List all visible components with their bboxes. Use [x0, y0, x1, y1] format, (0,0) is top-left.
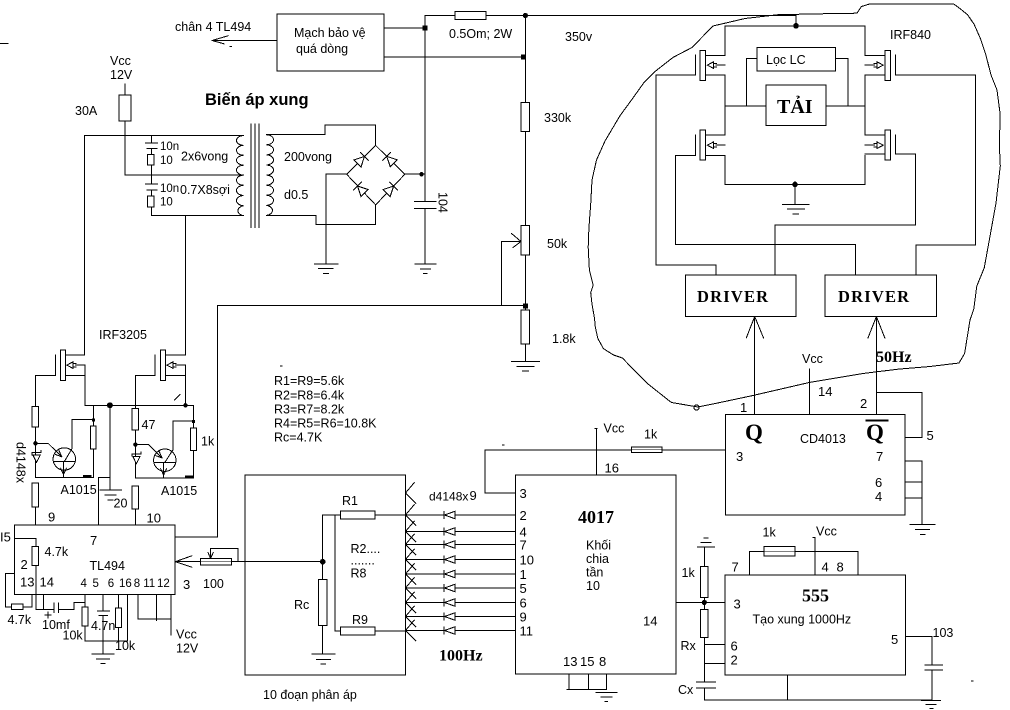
junction tick wiper node: [523, 304, 528, 309]
wire primary top rail y=135.5: [85, 135, 244, 137]
svg-text:chân 4 TL494: chân 4 TL494: [175, 20, 251, 34]
svg-text:1: 1: [520, 567, 527, 582]
wire 100Hz row to pin3: [485, 450, 726, 493]
svg-text:Mạch bảo vệ: Mạch bảo vệ: [294, 26, 366, 40]
svg-text:7: 7: [876, 449, 883, 464]
chevron tap row pin9: [406, 606, 417, 627]
svg-text:Cx: Cx: [678, 683, 694, 697]
junction dot bottom rail: [792, 182, 798, 188]
resistor 47 left: [32, 406, 38, 427]
wire base Q7: [35, 443, 61, 457]
svg-text:4.7k: 4.7k: [45, 545, 69, 559]
IC U3 4017 box: [516, 475, 677, 674]
box TAI (load): [766, 85, 826, 126]
wire protection box lower to node 525: [384, 56, 525, 58]
svg-text:CD4013: CD4013: [800, 432, 846, 446]
svg-text:10n: 10n: [160, 183, 179, 195]
diode d4148 row pin10: [444, 556, 455, 563]
svg-text:100: 100: [203, 577, 224, 591]
wire 555 pin2 stub: [704, 662, 725, 664]
wire primary bottom rail to right MOSFET drain: [151, 216, 243, 356]
wire row pin10 left: [406, 559, 444, 561]
cloud end small loop: [694, 405, 699, 410]
potentiometer 50k body: [521, 225, 530, 255]
svg-text:8: 8: [134, 578, 140, 590]
cloud outline around H-bridge: [588, 4, 1000, 407]
wire bridge right vertex to cap node: [405, 173, 425, 175]
svg-text:0.7X8sợi: 0.7X8sợi: [180, 183, 230, 197]
capacitor 10n (snubber 1): [146, 136, 158, 155]
svg-text:A1015: A1015: [161, 484, 197, 498]
capacitor Cx: [697, 682, 716, 700]
svg-text:Vcc: Vcc: [816, 525, 837, 539]
wire row pin4 left: [406, 531, 444, 533]
wire 555 bottom rail: [704, 699, 932, 701]
resistor 330k: [521, 102, 530, 131]
svg-text:3: 3: [183, 577, 190, 592]
svg-text:11: 11: [520, 623, 534, 638]
wire row pin1 left: [406, 573, 444, 575]
resistor 10k (pin6): [115, 595, 121, 641]
svg-text:50Hz: 50Hz: [876, 349, 912, 366]
wire left column to pin9: [34, 507, 36, 525]
wire pin3 with arrowhead: [175, 556, 245, 567]
svg-text:13: 13: [563, 654, 577, 669]
svg-text:quá dòng: quá dòng: [296, 42, 348, 56]
transistor Q1 IRF3205 left: [55, 350, 85, 380]
diode d4148 left (zener style): [32, 451, 41, 463]
svg-text:16: 16: [605, 461, 619, 476]
svg-text:4.7n: 4.7n: [91, 619, 115, 633]
capacitor 4.7n: [97, 595, 109, 641]
svg-text:14: 14: [818, 384, 832, 399]
resistor 1k left (collector): [90, 405, 96, 477]
junction square at (425,28): [423, 26, 428, 31]
svg-text:R1: R1: [342, 494, 358, 508]
wire row pin5 right: [455, 587, 516, 589]
wire right column mid: [134, 430, 136, 478]
wire H-bridge left rail segments: [724, 26, 726, 185]
resistor 0.5Om 2W: [455, 12, 486, 20]
ground inverted (1k to Vcc rail): [698, 538, 715, 547]
svg-text:2: 2: [860, 396, 867, 411]
wire row pin11 right: [455, 630, 516, 632]
diode D1 (left to top): [354, 153, 369, 168]
svg-text:12V: 12V: [176, 642, 199, 656]
transistor Q7 A1015 left: [53, 448, 75, 470]
chevron tap row pin3: [406, 483, 417, 504]
transistor Q6 IRF840 bottom-right: [865, 130, 895, 160]
svg-text:6: 6: [520, 595, 527, 610]
diode d4148 row pin4: [444, 528, 455, 535]
capacitor 104: [415, 174, 437, 263]
svg-text:15: 15: [580, 654, 594, 669]
wire left column mid: [34, 427, 36, 477]
svg-text:chia: chia: [586, 552, 609, 566]
wire base Q8: [135, 445, 162, 458]
svg-text:d4148x: d4148x: [429, 490, 468, 504]
svg-text:1k: 1k: [763, 526, 777, 540]
wire 4017 bottom pins tie: [567, 674, 606, 689]
chevron tap row pin11: [406, 620, 417, 641]
svg-text:Vcc: Vcc: [604, 422, 625, 436]
wire row pin2 left: [406, 514, 444, 516]
chevron tap row pin1: [406, 564, 417, 585]
svg-text:47: 47: [142, 418, 156, 432]
svg-text:10: 10: [160, 197, 173, 209]
svg-text:2: 2: [731, 653, 738, 668]
svg-text:3: 3: [734, 597, 741, 612]
wire R9 leads: [335, 630, 406, 632]
diode d4148 row pin5: [444, 584, 455, 591]
wire pins 7 6 4 tie: [905, 461, 922, 524]
stray dot under arrow: [230, 46, 232, 48]
svg-text:Rc=4.7K: Rc=4.7K: [274, 431, 323, 445]
wire Vcc to CD4013 pin14: [809, 369, 811, 415]
junction dot left base node: [33, 441, 37, 445]
svg-text:1.8k: 1.8k: [552, 332, 576, 346]
svg-text:R9: R9: [352, 613, 368, 627]
wire TL494 pin7 L: [98, 478, 110, 525]
resistor 47 right: [132, 409, 138, 430]
capacitor 10n (snubber 2): [146, 175, 158, 196]
wire pin5 feedback loop to pin2 line: [876, 393, 922, 438]
stray dot near d4148x label: [503, 444, 505, 446]
transistor Q4 IRF840 top-right: [865, 50, 895, 80]
wire bridge bottom vertex down: [375, 205, 377, 225]
svg-text:R3=R7=8.2k: R3=R7=8.2k: [274, 403, 345, 417]
svg-text:1k: 1k: [201, 435, 215, 449]
wire 4017 pin14 to 555 pin3: [676, 601, 725, 603]
wire wiper down to feedback node: [501, 242, 525, 306]
arrowhead base Q8: [156, 451, 162, 458]
wire pin2 loop to 4.7k: [5, 573, 14, 607]
resistor Rc: [319, 562, 327, 654]
ground under cap 104: [415, 264, 436, 274]
potentiometer 100: [200, 559, 231, 565]
arrowhead base Q7: [56, 450, 62, 457]
wire H-bridge right rail segments: [864, 26, 866, 185]
svg-text:5: 5: [927, 428, 934, 443]
svg-text:11: 11: [143, 578, 155, 590]
wire row pin2 right: [455, 514, 516, 516]
wire row pin9 left: [406, 616, 444, 618]
wire 350v divider column x=525.4: [524, 16, 526, 362]
box DRIVER1: [686, 275, 797, 317]
emitter Q7: [61, 461, 67, 477]
resistor right lower (to TL494 pin10): [132, 486, 138, 509]
wire Vcc to 555 pin4: [813, 538, 815, 576]
svg-text:d0.5: d0.5: [284, 188, 308, 202]
wire 555 pin6 stub: [704, 643, 725, 645]
svg-text:I5: I5: [0, 530, 11, 545]
fuse F1 30A: [119, 95, 131, 121]
svg-text:9: 9: [520, 609, 527, 624]
wire arrow to TL494 pin4: [213, 40, 277, 42]
wire 555 pin5 stub: [905, 635, 932, 637]
IC U4 555 box: [725, 575, 905, 675]
svg-text:4017: 4017: [578, 507, 614, 527]
wiper 100: [208, 548, 238, 561]
junction blob right: [186, 476, 192, 478]
box 10-segment divider: [245, 475, 406, 675]
ground under 1.8k: [512, 362, 540, 372]
diode D3 (bottom to left): [354, 182, 368, 196]
wire Loc LC right leg: [836, 59, 848, 106]
svg-text:555: 555: [802, 586, 829, 606]
text block R values: [274, 374, 377, 445]
box Mach bao ve qua dong (overcurrent protection): [277, 14, 384, 71]
IC U1 TL494 box: [15, 525, 176, 595]
svg-text:DRIVER: DRIVER: [838, 287, 910, 306]
wire left gate column upper: [34, 375, 36, 406]
wire center-tap: fuse node down and right: [125, 136, 242, 176]
wire CD4013 Qbar to DRIVER2 with arrow: [868, 317, 885, 415]
wire R1 to wiper node: [322, 515, 324, 562]
wire protection box to node 425: [384, 27, 425, 29]
wire source rail y=405.3: [85, 404, 194, 406]
transistor Q8 A1015 right: [154, 449, 176, 471]
junction dot pin14 wire: [702, 600, 707, 605]
junction dot source rail right: [183, 403, 187, 407]
resistor 1k (CD4013 pin3): [632, 447, 662, 453]
diode d4148 row pin6: [444, 599, 455, 606]
wire row pin4 right: [455, 531, 516, 533]
wire secondary bottom jog: [266, 215, 375, 224]
svg-text:50k: 50k: [547, 237, 568, 251]
wire AC2 ground drop: [325, 225, 327, 264]
ground TL494: [92, 641, 114, 664]
junction blob: [84, 475, 91, 477]
wire R1 leads: [323, 514, 406, 516]
svg-text:Biến áp xung: Biến áp xung: [205, 91, 309, 109]
svg-text:Q: Q: [745, 420, 763, 445]
collector Q7: [65, 420, 94, 462]
wire ground column x=110: [109, 405, 111, 490]
chevron tap row pin2: [406, 505, 417, 526]
wire left MOSFET drain column x=84.6: [84, 136, 86, 356]
diode d4148 right (zener style): [132, 452, 141, 464]
svg-text:350v: 350v: [565, 30, 593, 44]
overbar of Qbar: [867, 420, 888, 422]
wire row pin11 left: [406, 630, 444, 632]
svg-text:6: 6: [875, 475, 882, 490]
wire row pin7 right: [455, 544, 516, 546]
wire 555 pin7 top loop: [749, 552, 858, 576]
diode d4148 row pin7: [444, 541, 455, 548]
IC U2 CD4013 box: [726, 415, 906, 516]
svg-text:9: 9: [48, 510, 55, 525]
resistor 1k (555 top): [764, 547, 795, 556]
svg-text:7: 7: [520, 537, 527, 552]
svg-text:12V: 12V: [110, 68, 133, 82]
svg-text:Q: Q: [866, 420, 884, 445]
resistor 4.7k (pin15): [32, 546, 38, 565]
junction dot wiper node: [320, 559, 326, 565]
resistor 10k (pin4): [82, 595, 88, 641]
svg-text:13: 13: [20, 575, 34, 590]
transformer T1 secondary winding: [266, 135, 273, 216]
wire TAI left: [725, 105, 766, 107]
wire bridge left vertex to AC2 node: [326, 174, 347, 224]
svg-text:4.7k: 4.7k: [8, 613, 32, 627]
svg-text:1: 1: [740, 400, 747, 415]
wire emitter rail left: [35, 476, 92, 478]
svg-text:0.5Om; 2W: 0.5Om; 2W: [449, 27, 512, 41]
bridge rectifier frame: [347, 145, 405, 205]
svg-text:200vong: 200vong: [284, 150, 332, 164]
wire TAI right: [826, 105, 865, 107]
wire Loc LC left leg: [746, 59, 757, 106]
diode d4148 row pin9: [444, 613, 455, 620]
arrowhead left: [212, 36, 228, 44]
wire row pin5 left: [406, 587, 444, 589]
svg-text:IRF3205: IRF3205: [99, 328, 147, 342]
wire Vcc to fuse: [124, 84, 126, 95]
resistor Rx: [701, 602, 708, 682]
svg-text:Vcc: Vcc: [110, 54, 131, 68]
wire ground rail under TL494: [85, 595, 128, 641]
svg-text:10n: 10n: [160, 141, 179, 153]
svg-text:14: 14: [40, 575, 54, 590]
wire pins 8 11 12 tie to Vcc: [138, 595, 171, 636]
svg-text:104: 104: [436, 192, 450, 213]
wire 350v drop to H-bridge top rail: [795, 16, 797, 26]
wire bottom rail ground drop: [794, 184, 796, 203]
junction square collector node right: [192, 420, 195, 423]
stray dot near 555: [972, 680, 974, 682]
wire fuse bottom to primary-top rail: [124, 121, 126, 136]
wire pin15 internal: [15, 539, 36, 547]
capacitor 103: [925, 636, 942, 699]
stray tick near Q2: [175, 395, 181, 401]
wire gate Q5 to DRIVER2: [675, 155, 855, 275]
box DRIVER2: [825, 275, 937, 317]
junction square at (523,57): [521, 55, 526, 60]
svg-text:Rc: Rc: [294, 598, 309, 612]
wire Q2 gate lead: [135, 374, 155, 376]
wire CD4013 Q to DRIVER1 with arrow: [746, 317, 763, 415]
stray dash left margin: [0, 43, 8, 45]
wire row pin3 (100Hz net): [485, 492, 516, 494]
diode D4 (bottom to right): [383, 182, 397, 196]
svg-text:R1=R9=5.6k: R1=R9=5.6k: [274, 374, 345, 388]
diode d4148 row pin11: [444, 627, 455, 634]
resistor 10 (snubber 2): [148, 196, 155, 207]
transformer T1 primary winding lower: [237, 175, 244, 216]
resistor 10 (snubber 1): [148, 154, 155, 165]
wire emitter rail right: [135, 477, 193, 479]
wire Q1 source down: [84, 365, 86, 405]
svg-text:Vcc: Vcc: [176, 628, 197, 642]
svg-text:TẢI: TẢI: [777, 95, 813, 118]
wire node425 top corner: [425, 16, 455, 175]
ground 555 area: [922, 700, 941, 708]
ground H-bridge: [782, 204, 809, 214]
chevron tap row pin7: [406, 534, 417, 555]
wire wiper node entry: [245, 561, 323, 563]
transistor Q3 IRF840 top-left: [695, 50, 725, 80]
wiper arrow into 50k: [501, 234, 521, 248]
chevron tap row pin6: [406, 592, 417, 613]
transformer T1 core: [251, 124, 259, 228]
svg-text:4: 4: [822, 560, 829, 575]
resistor 1k (555 pin3 pullup): [701, 547, 708, 603]
wire gate Q6 to DRIVER1: [775, 154, 915, 275]
svg-text:4: 4: [81, 578, 88, 590]
box Loc LC: [757, 48, 836, 72]
svg-text:5: 5: [93, 578, 99, 590]
svg-text:Rx: Rx: [681, 639, 697, 653]
diode d4148 row pin1: [444, 570, 455, 577]
svg-text:3: 3: [520, 486, 527, 501]
svg-text:100Hz: 100Hz: [439, 648, 483, 665]
resistor 1.8k: [521, 310, 530, 344]
ground 4017: [596, 692, 617, 701]
ground CD4013: [910, 525, 935, 535]
wire right column to pin10: [134, 509, 136, 525]
svg-text:10: 10: [520, 552, 534, 567]
svg-text:d4148x: d4148x: [14, 442, 28, 484]
junction dot source rail left: [107, 402, 113, 408]
resistor 1k right (collector): [191, 405, 197, 478]
diode D2 (right to top): [383, 152, 398, 166]
wire Vcc to 4017 pin16: [595, 429, 597, 475]
wire Q1 gate lead: [35, 374, 55, 376]
svg-text:3: 3: [736, 449, 743, 464]
transistor Q5 IRF840 bottom-left: [695, 130, 725, 160]
svg-text:5: 5: [520, 581, 527, 596]
wire H-bridge bottom rail: [725, 183, 865, 185]
transformer T1 primary winding upper: [236, 136, 243, 176]
svg-text:1k: 1k: [644, 428, 658, 442]
wire gate Q3 to DRIVER1: [656, 75, 716, 275]
svg-text:330k: 330k: [544, 111, 572, 125]
base bar Q7: [54, 460, 75, 462]
svg-text:Vcc: Vcc: [802, 352, 823, 366]
junction square collector node: [92, 418, 95, 421]
svg-text:Tạo xung 1000Hz: Tạo xung 1000Hz: [753, 613, 852, 627]
ground -20: [100, 490, 121, 500]
ground under secondary: [315, 264, 338, 274]
resistor left lower (to TL494 pin9): [32, 483, 38, 507]
wire resistor to 350v node: [486, 15, 796, 17]
wire snubber1 bottom: [150, 165, 152, 175]
svg-text:16: 16: [119, 578, 132, 590]
svg-text:103: 103: [933, 626, 954, 640]
svg-text:6: 6: [108, 578, 114, 590]
junction dot at (525.4,15.5): [523, 13, 528, 18]
svg-text:30A: 30A: [75, 104, 98, 118]
svg-text:R8: R8: [351, 567, 367, 581]
svg-text:10 đoạn phân áp: 10 đoạn phân áp: [263, 688, 357, 702]
base bar Q8: [154, 461, 175, 463]
svg-text:5: 5: [891, 632, 898, 647]
wire 4.7k down through box edge: [35, 566, 37, 610]
ground Rc: [312, 654, 335, 664]
svg-text:Lọc LC: Lọc LC: [766, 53, 806, 67]
wire R2..R8 chain: [334, 515, 336, 631]
svg-text:2x6vong: 2x6vong: [181, 150, 228, 164]
junction dot right base node: [133, 442, 137, 446]
junction dot top rail: [793, 23, 799, 29]
svg-text:12: 12: [157, 578, 170, 590]
wire snubber2 bottom: [150, 207, 152, 216]
labels pins 4 5 6 16 8 11 12: [81, 578, 170, 590]
svg-text:9: 9: [470, 488, 477, 503]
wire row pin9 right: [455, 616, 516, 618]
wire row pin10 right: [455, 559, 516, 561]
